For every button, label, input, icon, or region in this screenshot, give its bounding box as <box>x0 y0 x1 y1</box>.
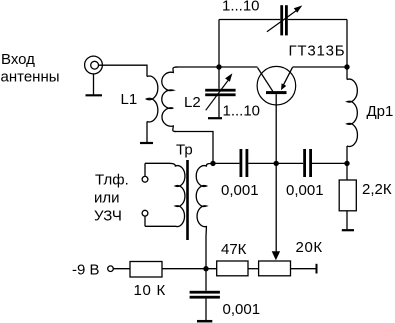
svg-text:20К: 20К <box>296 239 323 256</box>
transistor collector line <box>258 68 273 92</box>
wire connector stub down <box>93 74 95 95</box>
svg-text:0,001: 0,001 <box>223 301 261 318</box>
wire top feedback loop horizontal left <box>219 19 280 21</box>
capacitor C4 0,001 (right) <box>303 149 306 177</box>
wire top feedback loop horizontal right <box>288 19 347 21</box>
wire L2 top to transistor <box>175 66 258 68</box>
svg-text:47К: 47К <box>221 241 247 258</box>
wire L2 bottom to transformer junction <box>174 132 213 164</box>
capacitor C3 0,001 (left) <box>240 149 243 177</box>
terminal circle bottom <box>142 210 148 216</box>
capacitor C1 variable 1...10 (top) <box>280 5 283 35</box>
ground bar under 2,2K <box>342 229 354 231</box>
terminal circle top <box>142 176 148 182</box>
transistor base bar <box>266 91 287 94</box>
node junction Dr1 bottom / 2.2K <box>344 161 349 166</box>
potentiometer R4 20K body <box>259 261 291 276</box>
node junction L2 bottom / transformer top <box>210 161 215 166</box>
wire 10K to junction <box>162 268 217 270</box>
svg-text:УЗЧ: УЗЧ <box>94 208 122 225</box>
transformer core <box>186 160 189 240</box>
wire top feedback loop right vertical <box>346 20 348 68</box>
wire secondary top to terminal <box>144 163 146 176</box>
svg-text:L2: L2 <box>184 94 201 111</box>
resistor R3 2,2K <box>346 163 348 180</box>
capacitor C5 0,001 (bottom) <box>205 269 207 291</box>
ground bar under connector <box>86 94 103 96</box>
svg-text:L1: L1 <box>121 91 138 108</box>
node junction at emitter / Dr1 top <box>344 64 349 69</box>
svg-text:0,001: 0,001 <box>286 182 324 199</box>
svg-text:Тлф.: Тлф. <box>95 172 129 189</box>
transistor emitter line with arrow <box>283 67 293 86</box>
inductor L2 <box>162 67 178 132</box>
wire top feedback loop left vertical <box>218 20 220 68</box>
resistor R1 10K <box>130 262 162 278</box>
supply terminal circle <box>108 266 114 272</box>
ground bar under C2 <box>208 117 222 119</box>
svg-text:0,001: 0,001 <box>221 182 259 199</box>
svg-text:антенны: антенны <box>1 69 60 86</box>
wire secondary bottom to terminal <box>144 216 146 226</box>
transistor base lead down to potentiometer wiper arrow <box>275 94 277 252</box>
resistor R2 47K <box>217 261 248 276</box>
wire 47K to potentiometer <box>248 268 259 270</box>
ground bar under C5 <box>197 320 212 323</box>
svg-text:2,2К: 2,2К <box>362 181 392 198</box>
mid rail wire segments <box>213 162 239 164</box>
terminal tick at 20K right <box>316 264 318 274</box>
transformer primary winding (right) <box>196 163 213 238</box>
inductor L1 <box>146 76 157 122</box>
inductor Dr1 <box>346 67 348 80</box>
node junction bottom rail <box>203 266 208 271</box>
ground bar under L1 <box>140 142 153 144</box>
svg-text:или: или <box>94 190 120 207</box>
svg-text:1...10: 1...10 <box>222 0 260 15</box>
svg-text:Др1: Др1 <box>367 103 394 120</box>
transformer secondary winding (left) <box>145 163 185 226</box>
capacitor C2 variable 1...10 (across L2) <box>218 67 220 89</box>
svg-text:-9 В: -9 В <box>72 262 100 279</box>
svg-text:Тр: Тр <box>176 142 193 159</box>
svg-text:10 К: 10 К <box>134 282 166 299</box>
wire emitter to right rail <box>293 66 348 68</box>
connector XW1 (antenna socket) <box>85 56 103 74</box>
svg-text:1...10: 1...10 <box>223 102 261 119</box>
svg-text:Вход: Вход <box>1 51 35 68</box>
wire potentiometer right to end tick <box>291 268 317 270</box>
transistor VT1 GT313B circle <box>257 66 296 105</box>
svg-text:ГТ313Б: ГТ313Б <box>289 43 346 60</box>
wire transformer primary bottom to rail <box>205 238 207 269</box>
node junction at L2 top <box>216 64 221 69</box>
node junction base lead crossing <box>274 161 279 166</box>
wire connector to L1 top <box>99 65 148 76</box>
wire terminal to 10K <box>113 268 130 270</box>
wire L1 bottom <box>146 122 148 143</box>
